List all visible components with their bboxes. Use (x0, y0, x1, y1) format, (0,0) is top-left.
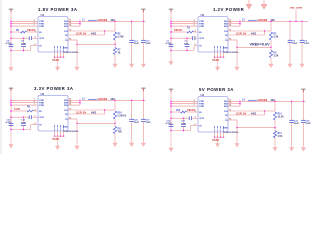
svg-text:1.5K: 1.5K (278, 136, 283, 138)
wire cap bottom (23, 47, 25, 51)
wire cap bottom (23, 126, 25, 130)
power arrow net A (246, 0, 252, 9)
wire cap to ground (291, 123, 293, 146)
wire FB tap (237, 46, 271, 48)
wire PVIN1 (171, 100, 198, 102)
wire cap column (23, 117, 25, 123)
wire PGND stubs (54, 131, 64, 137)
svg-text:R11: R11 (118, 129, 123, 131)
wire VOS (68, 30, 105, 32)
ground C13 (141, 62, 145, 68)
wire PVIN3 (171, 105, 198, 107)
pin labels PGND (54, 46, 56, 52)
resistor R6 body (113, 32, 116, 40)
wire PGND bus (214, 136, 225, 138)
svg-text:SW3: SW3 (64, 26, 68, 28)
wire divider bottom (270, 58, 272, 62)
wire divider mid (274, 120, 276, 131)
svg-text:5.76K: 5.76K (118, 37, 124, 39)
power flag output 5V (301, 89, 306, 92)
wire PG (68, 118, 77, 120)
wire PGND stubs (214, 132, 224, 138)
wire EN (171, 31, 187, 33)
capacitor C27 body (141, 119, 146, 121)
capacitor C22 body (9, 123, 14, 125)
wire VIN sense (11, 116, 29, 118)
svg-text:SW3: SW3 (224, 26, 228, 28)
ground AGND (75, 65, 79, 71)
power arrow net B (261, 0, 267, 9)
resistor R13 body (181, 111, 187, 113)
svg-text:VDD_CORE: VDD_CORE (290, 7, 303, 9)
op-amp-style regulator IC U4 (198, 97, 228, 133)
svg-text:PGND: PGND (53, 60, 60, 62)
capacitor C bypass U1 (29, 36, 31, 40)
svg-text:10.7K 1%: 10.7K 1% (76, 33, 86, 35)
wire riser to SS pin (190, 126, 192, 131)
capacitor C34 body (289, 120, 294, 122)
wire cap to IC pin (195, 37, 198, 39)
wire cap to ground (301, 43, 303, 62)
wire EN to IC (194, 31, 199, 33)
wire EN (11, 31, 21, 33)
resistor R7 body (113, 48, 116, 55)
svg-text:22UF: 22UF (134, 43, 140, 45)
ground divider (113, 141, 117, 147)
wire bottom left (171, 50, 194, 52)
wire output riser (142, 11, 144, 21)
ground AGND (75, 144, 79, 150)
resistor R1 body (187, 31, 194, 33)
wire cap column C6 (301, 21, 303, 40)
ground C6 (300, 62, 304, 68)
wire divider bottom (274, 138, 276, 146)
pin labels PGND (54, 125, 56, 131)
wire output rail (80, 20, 146, 22)
wire cap column (23, 38, 25, 44)
capacitor C2 body (185, 44, 190, 46)
wire cap column C13 (142, 21, 144, 40)
wire output riser (302, 91, 304, 101)
pin labels PGND (214, 46, 216, 52)
capacitor C35 body (301, 120, 306, 122)
wire PVIN1 (11, 20, 38, 22)
wire output rail (240, 100, 306, 102)
wire PGND bus (54, 56, 65, 58)
svg-text:22UF: 22UF (146, 122, 152, 124)
svg-text:10.7K 1%: 10.7K 1% (236, 33, 246, 35)
wire cap to ground (289, 43, 291, 62)
svg-text:5V POWER 3A: 5V POWER 3A (199, 87, 234, 92)
wire PGND stubs (214, 52, 224, 58)
pin labels PGND (214, 126, 216, 132)
wire divider top (270, 21, 272, 31)
wire EN to IC (27, 31, 39, 33)
section 1.8V POWER 3A (6, 7, 152, 71)
svg-text:VREF=0.6V: VREF=0.6V (250, 43, 271, 47)
svg-text:3.3V POWER 3A: 3.3V POWER 3A (34, 86, 73, 91)
wire PGND bus (214, 56, 225, 58)
wire VOS (228, 110, 265, 112)
wire input rail (170, 11, 172, 52)
inductor L2 body (248, 20, 258, 21)
power flag output 3V3 (141, 88, 146, 91)
capacitor C13 body (141, 40, 146, 42)
svg-text:PGND: PGND (213, 60, 220, 62)
ground AGND (235, 141, 239, 147)
wire cap bottom (183, 127, 185, 131)
power flag input U3 (9, 88, 14, 91)
svg-text:0402: 0402 (251, 112, 257, 115)
wire cap to ground (131, 43, 133, 62)
wire FB (228, 114, 265, 116)
resistor R14 body (273, 112, 276, 120)
ground left rail (169, 52, 173, 66)
page frame left edge (0, 0, 2, 154)
wire divider mid (270, 40, 272, 51)
svg-text:R15: R15 (278, 133, 283, 135)
resistor R9 body (27, 110, 34, 112)
ground left rail (9, 52, 13, 72)
wire output rail (240, 20, 308, 22)
wire PVIN1 (11, 99, 38, 101)
ground C34 (290, 145, 294, 151)
svg-text:10K/1%: 10K/1% (174, 30, 182, 32)
capacitor C26 body (129, 119, 134, 121)
svg-text:R10: R10 (118, 113, 123, 115)
ground C12 (130, 62, 134, 68)
wire input rail (10, 90, 12, 131)
wire divider top (114, 100, 116, 110)
wire PG (228, 39, 237, 41)
wire bottom left (11, 129, 31, 131)
ground left rail (169, 132, 173, 152)
wire divider bottom (114, 134, 116, 141)
wire PVIN2 (171, 23, 198, 25)
wire cap to IC pin (31, 116, 38, 118)
wire SW pins (68, 100, 80, 105)
section 1.2V POWER (166, 7, 311, 70)
wire FB (68, 113, 105, 115)
wire FB tap (77, 43, 115, 45)
capacitor C1 body (169, 44, 174, 46)
resistor R5 body (21, 31, 27, 33)
resistor R2 body (269, 32, 272, 40)
wire PVIN3 (11, 104, 38, 106)
resistor R3 body (269, 51, 272, 58)
wire cap column C26 (131, 100, 133, 119)
power flag input U2 (169, 9, 174, 12)
capacitor C6 body (300, 40, 305, 42)
svg-text:U4: U4 (201, 93, 205, 97)
svg-text:3.3K: 3.3K (274, 37, 279, 39)
svg-text:10UF: 10UF (304, 43, 310, 45)
ground C5 (288, 62, 292, 68)
power flag output 1V8 (141, 9, 146, 12)
svg-text:0402: 0402 (91, 32, 97, 35)
svg-text:0402: 0402 (91, 111, 97, 114)
wire cap to ground (142, 122, 144, 141)
op-amp-style regulator IC U1 (38, 17, 68, 53)
wire EN (11, 110, 27, 112)
wire riser to SS pin (30, 125, 32, 130)
wire cap bottom (186, 47, 188, 51)
section 5V POWER 3A (166, 87, 312, 151)
wire PGND stubs (54, 52, 64, 58)
wire SW pins (228, 101, 240, 106)
ground AGND (235, 65, 239, 71)
capacitor C9 body (21, 44, 26, 46)
wire cap column C12 (131, 21, 133, 40)
svg-text:PGND: PGND (213, 140, 220, 142)
capacitor C12 body (129, 40, 134, 42)
wire cap column (183, 118, 185, 124)
capacitor C30 body (169, 124, 174, 126)
wire AGND stem (76, 123, 78, 144)
svg-text:14.7K: 14.7K (14, 108, 20, 111)
svg-text:SW3: SW3 (64, 105, 68, 107)
wire PVIN3 (11, 25, 38, 27)
svg-text:R13: R13 (176, 110, 181, 112)
svg-text:22UF: 22UF (294, 123, 300, 125)
svg-text:22UF: 22UF (292, 43, 298, 45)
wire output riser (295, 10, 297, 22)
svg-text:10.7K 1%: 10.7K 1% (236, 113, 246, 115)
wire cap to IC pin (31, 37, 38, 39)
svg-text:U1: U1 (41, 13, 45, 17)
svg-text:1.8V POWER 3A: 1.8V POWER 3A (38, 7, 77, 12)
wire FB tap (237, 127, 275, 129)
wire cap column C27 (142, 100, 144, 119)
svg-text:SW3: SW3 (224, 106, 228, 108)
svg-text:PVIN3: PVIN3 (39, 105, 44, 107)
svg-text:10.2K: 10.2K (278, 117, 284, 119)
capacitor C8 body (9, 44, 14, 46)
svg-text:U2: U2 (201, 13, 205, 17)
inductor L3 body (88, 99, 98, 100)
wire divider bottom (114, 55, 116, 62)
capacitor C bypass U4 (189, 116, 191, 120)
wire output rail (80, 99, 146, 101)
wire cap to ground (131, 122, 133, 141)
wire bottom left (171, 130, 191, 132)
wire PVIN2 (171, 103, 198, 105)
resistor R10 body (113, 111, 116, 119)
svg-text:PVIN3: PVIN3 (199, 106, 204, 108)
wire SW pins (228, 21, 240, 26)
wire cap to ground (302, 123, 304, 146)
ground C27 (141, 141, 145, 147)
wire FB (68, 34, 105, 36)
capacitor C5 body (288, 40, 293, 42)
svg-text:1.2V POWER: 1.2V POWER (213, 7, 245, 12)
svg-text:75K: 75K (118, 132, 123, 134)
op-amp-style regulator IC U3 (38, 96, 68, 132)
wire input rail (170, 91, 172, 132)
wire FB (228, 34, 265, 36)
wire PVIN2 (11, 102, 38, 104)
wire FB tap (77, 122, 115, 124)
wire divider top (274, 101, 276, 111)
wire output riser (142, 90, 144, 100)
resistor R11 body (113, 127, 116, 134)
resistor R15 body (273, 131, 276, 138)
wire AGND stem (236, 128, 238, 142)
ground PGND (55, 57, 59, 70)
svg-text:PGND: PGND (53, 139, 60, 141)
svg-text:3.3K: 3.3K (274, 56, 279, 58)
capacitor C bypass U2 (193, 36, 195, 40)
wire SW pins (68, 21, 80, 26)
ground PGND (215, 57, 219, 70)
inductor L4 body (248, 100, 258, 101)
wire AGND stem (236, 47, 238, 65)
wire VIN sense (171, 37, 193, 39)
wire cap column C34 (291, 101, 293, 120)
capacitor C bypass U3 (29, 115, 31, 119)
power flag input U4 (169, 89, 174, 92)
svg-text:PVIN3: PVIN3 (39, 26, 44, 28)
svg-text:22UF: 22UF (146, 43, 152, 45)
wire divider mid (114, 119, 116, 127)
wire cap column C5 (289, 21, 291, 40)
wire cap column (186, 38, 188, 44)
wire EN to IC (34, 110, 39, 112)
capacitor C31 body (181, 124, 186, 126)
ground PGND (215, 137, 219, 147)
wire cap to ground (142, 43, 144, 62)
inductor L1 body (88, 20, 98, 21)
ground C26 (130, 141, 134, 147)
svg-text:10.7K 1%: 10.7K 1% (76, 112, 86, 114)
wire AGND stem (76, 44, 78, 65)
section 3.3V POWER 3A (6, 86, 152, 149)
wire PG (68, 39, 77, 41)
svg-text:2.2K/1%: 2.2K/1% (118, 116, 127, 118)
wire riser to SS pin (193, 46, 195, 51)
wire PVIN2 (11, 23, 38, 25)
wire PGND bus (54, 135, 65, 137)
wire cap to IC pin (191, 117, 198, 119)
ground divider (269, 62, 273, 68)
wire EN (171, 111, 181, 113)
svg-text:1K: 1K (118, 53, 121, 55)
wire bottom left (11, 50, 31, 52)
ground left rail (9, 131, 13, 149)
wire divider top (114, 21, 116, 31)
wire riser to SS pin (30, 46, 32, 51)
wire PVIN3 (171, 25, 198, 27)
svg-text:U3: U3 (41, 92, 45, 96)
wire EN to IC (187, 111, 199, 113)
svg-text:R14: R14 (278, 113, 283, 116)
ground divider (273, 145, 277, 151)
wire cap column C35 (302, 101, 304, 120)
ground C35 (301, 145, 305, 151)
capacitor C23 body (21, 123, 26, 125)
svg-text:22UF: 22UF (306, 123, 312, 125)
wire input rail (10, 11, 12, 52)
wire VIN sense (171, 117, 189, 119)
op-amp-style regulator IC U2 (198, 17, 228, 53)
svg-text:0402: 0402 (251, 32, 257, 35)
power flag input U1 (9, 9, 14, 12)
wire PVIN1 (171, 20, 198, 22)
wire divider mid (114, 40, 116, 48)
wire PG (228, 119, 237, 121)
wire VOS (68, 109, 105, 111)
ground divider (113, 62, 117, 68)
wire VOS (228, 30, 265, 32)
ground PGND (55, 136, 59, 149)
svg-text:PVIN3: PVIN3 (199, 26, 204, 28)
wire VIN sense (11, 37, 29, 39)
svg-text:22UF: 22UF (134, 122, 140, 124)
